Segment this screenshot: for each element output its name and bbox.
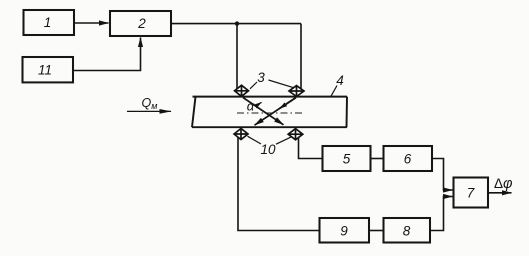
leader from label 10 to left transducer [248,136,262,144]
angle alpha pointer [256,102,262,106]
leader from label 10 to right transducer [276,137,292,145]
block 1 [24,10,75,35]
block 2 [110,11,171,36]
svg-text:9: 9 [340,224,348,239]
svg-text:11: 11 [38,63,52,78]
wire 8 to 7 arrow [430,197,453,231]
transducer 3 right (diamond with cross) [289,86,304,97]
beam path upstream [255,98,297,126]
wire transducer 10 right down to block 5 [299,138,323,158]
beam path downstream [243,98,284,125]
svg-text:5: 5 [343,152,351,167]
svg-text:8: 8 [403,224,411,239]
junction node [235,21,239,25]
svg-text:α: α [247,99,255,114]
beam path upstream upper segment arrow [280,98,297,109]
pipe 4 bottom wall [192,126,347,128]
svg-text:1: 1 [44,15,52,30]
pipe 4 top wall [193,96,348,98]
wire 11 to 2 arrow [73,38,141,71]
wire 5 to 6 [371,158,384,160]
wire 9 to 8 [369,230,384,232]
svg-text:2: 2 [137,16,146,31]
flow Qm arrow [127,110,171,112]
wire 7 output arrow [488,192,512,194]
transducer 3 left (diamond with cross) [235,85,249,96]
block 9 [320,218,370,243]
wire 6 to 7 arrow [432,159,453,191]
leader from label 3 to right transducer [269,80,295,88]
leader from label 4 to pipe [331,86,337,97]
svg-text:3: 3 [257,70,265,85]
block 5 [323,146,371,171]
transducer 10 right (diamond with cross) [288,129,303,140]
svg-text:Qм: Qм [142,96,158,111]
svg-text:7: 7 [467,186,475,201]
block 11 [23,57,74,82]
svg-text:4: 4 [336,73,344,88]
wire 2 to transducers bus [171,23,301,25]
wire down to transducer 3 right [300,24,302,89]
wire 1 to 2 arrow [74,22,109,24]
pipe right end [346,97,349,128]
leader from label 3 to left transducer [250,82,257,89]
block 6 [384,146,433,171]
svg-text:10: 10 [260,142,276,157]
block 7 [454,178,489,208]
wire transducer 10 left down to block 9 [238,137,320,231]
pipe centerline [237,112,302,114]
transducer 10 left (diamond with cross) [234,129,248,140]
block 8 [384,218,431,243]
svg-text:Δφ: Δφ [494,176,513,192]
pipe left end [192,97,196,128]
svg-text:6: 6 [404,152,412,167]
wire junction down to transducer 3 left [236,24,238,89]
